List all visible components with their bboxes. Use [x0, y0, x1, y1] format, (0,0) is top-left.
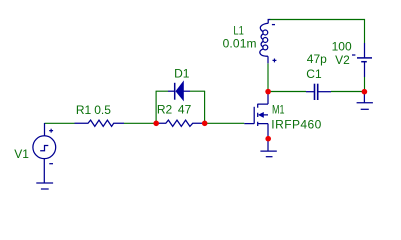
svg-text:V2: V2 — [335, 53, 350, 67]
svg-text:47p: 47p — [307, 52, 327, 66]
svg-text:M1: M1 — [272, 103, 285, 117]
svg-text:0.01m: 0.01m — [223, 37, 257, 51]
svg-text:0.5: 0.5 — [94, 103, 111, 117]
svg-text:IRFP460: IRFP460 — [271, 118, 322, 132]
svg-text:100: 100 — [332, 40, 352, 54]
svg-text:L1: L1 — [233, 24, 244, 38]
svg-text:D1: D1 — [174, 67, 190, 81]
svg-text:C1: C1 — [306, 67, 322, 81]
svg-text:R1: R1 — [76, 103, 92, 117]
svg-text:R2: R2 — [157, 102, 173, 116]
svg-text:47: 47 — [178, 102, 192, 116]
svg-text:V1: V1 — [14, 147, 29, 161]
